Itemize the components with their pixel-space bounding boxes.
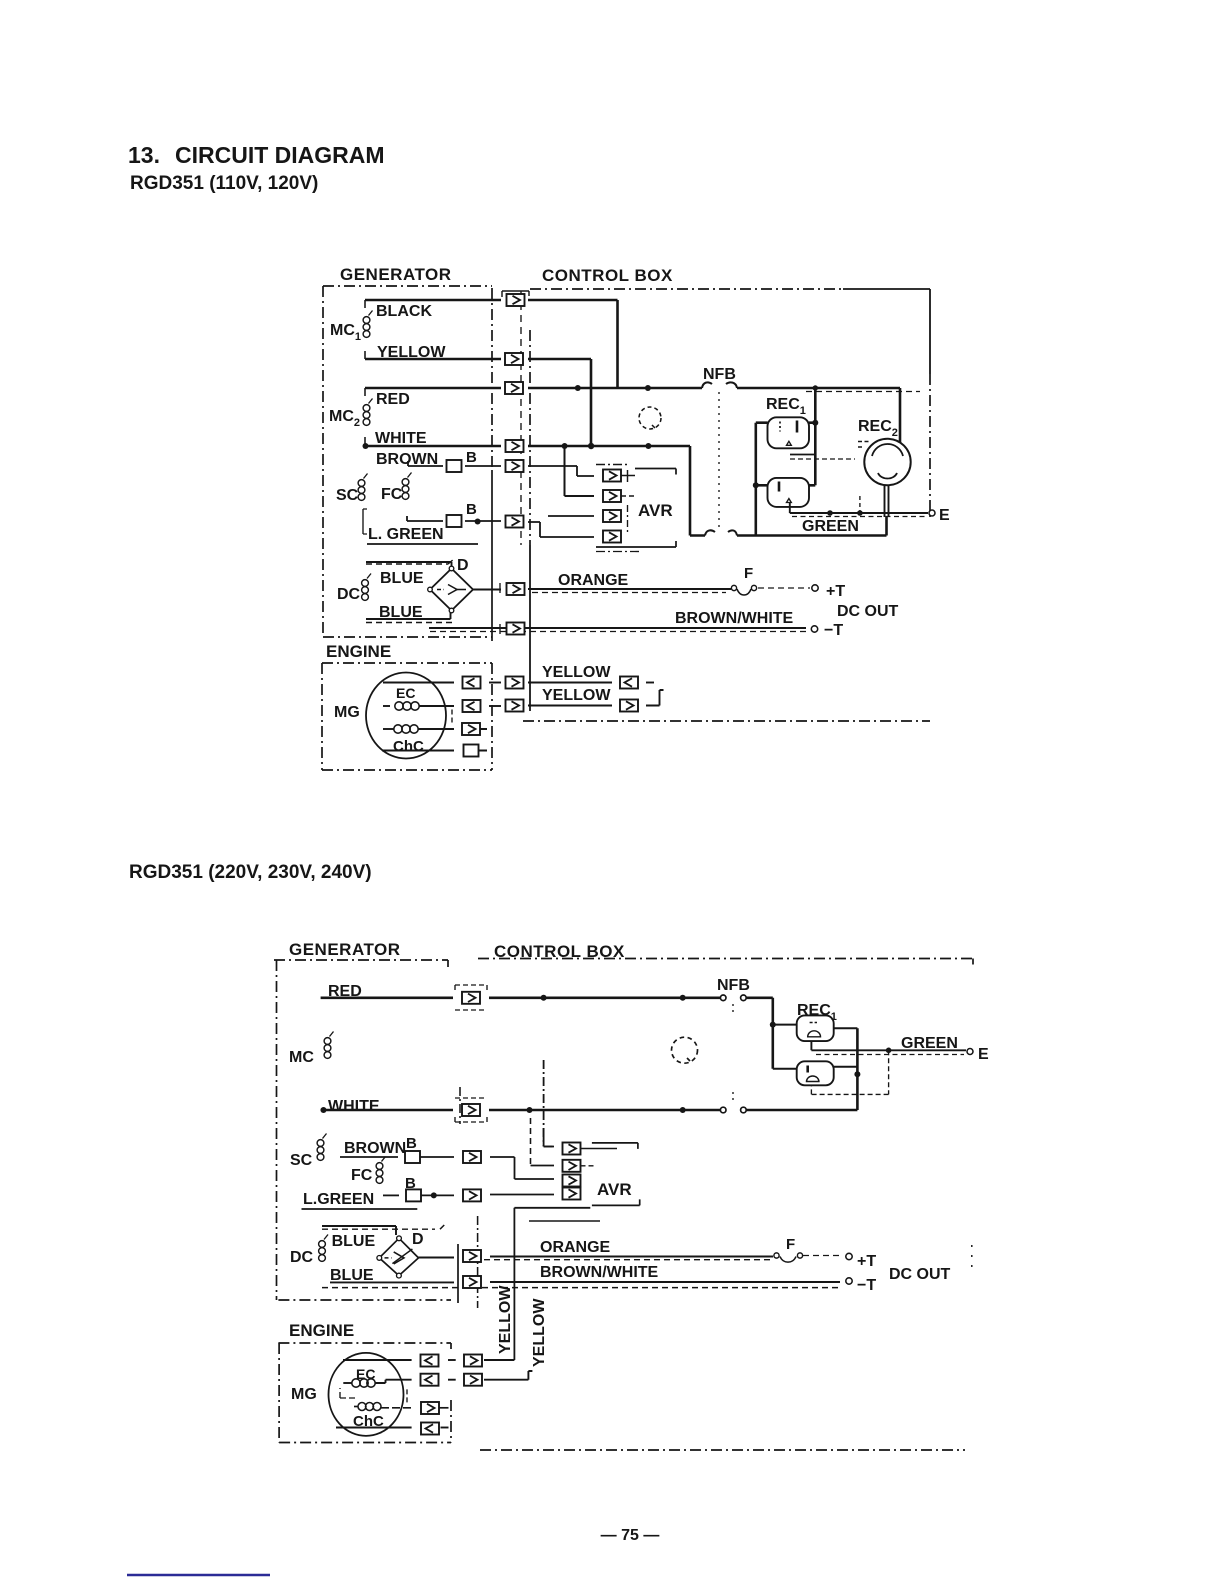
svg-text:AVR: AVR <box>638 501 673 520</box>
svg-text:RED: RED <box>376 391 410 408</box>
svg-text:YELLOW: YELLOW <box>377 344 446 361</box>
svg-text:REC2: REC2 <box>858 418 898 439</box>
svg-text:RED: RED <box>328 983 362 1000</box>
svg-text:NFB: NFB <box>703 366 736 383</box>
svg-text:SC: SC <box>336 487 359 504</box>
svg-text:ChC: ChC <box>393 738 424 755</box>
svg-text:YELLOW: YELLOW <box>531 1298 548 1367</box>
svg-text:DC: DC <box>290 1249 314 1266</box>
svg-text:ENGINE: ENGINE <box>326 642 391 661</box>
svg-text:MC2: MC2 <box>329 408 360 429</box>
svg-text:GREEN: GREEN <box>901 1035 958 1052</box>
svg-text:B: B <box>466 449 477 466</box>
svg-text:FC: FC <box>351 1167 373 1184</box>
svg-text:RGD351 (220V, 230V, 240V): RGD351 (220V, 230V, 240V) <box>129 862 372 883</box>
svg-text:+T: +T <box>857 1253 876 1270</box>
svg-text:MG: MG <box>334 704 360 721</box>
svg-text:BROWN: BROWN <box>376 451 438 468</box>
svg-text:ChC: ChC <box>353 1413 384 1430</box>
svg-text:−T: −T <box>824 622 843 639</box>
svg-text:MG: MG <box>291 1386 317 1403</box>
svg-text:AVR: AVR <box>597 1180 632 1199</box>
svg-text:DC OUT: DC OUT <box>837 603 899 620</box>
svg-text:ENGINE: ENGINE <box>289 1321 354 1340</box>
svg-text:L.GREEN: L.GREEN <box>303 1191 374 1208</box>
svg-text:GREEN: GREEN <box>802 518 859 535</box>
svg-text:F: F <box>744 565 753 582</box>
svg-text:BLUE: BLUE <box>379 604 423 621</box>
svg-text:13.: 13. <box>128 142 160 168</box>
svg-text:CONTROL BOX: CONTROL BOX <box>494 942 625 961</box>
svg-text:+T: +T <box>826 583 845 600</box>
svg-text:WHITE: WHITE <box>375 430 427 447</box>
svg-text:GENERATOR: GENERATOR <box>340 265 452 284</box>
svg-text:CIRCUIT DIAGRAM: CIRCUIT DIAGRAM <box>175 142 385 168</box>
svg-text:YELLOW: YELLOW <box>497 1285 514 1354</box>
svg-text:BROWN/WHITE: BROWN/WHITE <box>675 610 794 627</box>
svg-text:WHITE: WHITE <box>328 1098 380 1115</box>
svg-text:DC: DC <box>337 586 361 603</box>
svg-text:L. GREEN: L. GREEN <box>368 526 444 543</box>
svg-text:MC1: MC1 <box>330 322 361 343</box>
svg-text:F: F <box>786 1236 795 1253</box>
svg-text:NFB: NFB <box>717 977 750 994</box>
svg-text:CONTROL BOX: CONTROL BOX <box>542 266 673 285</box>
svg-text:YELLOW: YELLOW <box>542 664 611 681</box>
svg-text:EC: EC <box>356 1366 375 1382</box>
svg-text:BLUE: BLUE <box>332 1233 376 1250</box>
svg-text:B: B <box>466 501 477 518</box>
svg-text:YELLOW: YELLOW <box>542 687 611 704</box>
svg-text:D: D <box>457 557 469 574</box>
svg-text:BROWN: BROWN <box>344 1140 406 1157</box>
svg-text:— 75 —: — 75 — <box>601 1527 660 1544</box>
svg-text:BLUE: BLUE <box>380 570 424 587</box>
svg-text:SC: SC <box>290 1152 313 1169</box>
svg-text:B: B <box>405 1175 416 1192</box>
svg-text:−T: −T <box>857 1277 876 1294</box>
svg-text:BLUE: BLUE <box>330 1267 374 1284</box>
svg-text:RGD351 (110V, 120V): RGD351 (110V, 120V) <box>130 173 318 194</box>
svg-text:GENERATOR: GENERATOR <box>289 940 401 959</box>
svg-text:EC: EC <box>396 685 415 701</box>
svg-text:FC: FC <box>381 486 403 503</box>
svg-text:BROWN/WHITE: BROWN/WHITE <box>540 1264 659 1281</box>
svg-text:ORANGE: ORANGE <box>558 572 629 589</box>
svg-text:E: E <box>939 507 950 524</box>
svg-text:REC1: REC1 <box>766 396 806 417</box>
svg-text:E: E <box>978 1046 989 1063</box>
svg-text:DC OUT: DC OUT <box>889 1266 951 1283</box>
svg-text:BLACK: BLACK <box>376 303 432 320</box>
svg-text:D: D <box>412 1231 424 1248</box>
svg-text:ORANGE: ORANGE <box>540 1239 611 1256</box>
svg-text:MC: MC <box>289 1049 314 1066</box>
svg-text:B: B <box>406 1135 417 1152</box>
